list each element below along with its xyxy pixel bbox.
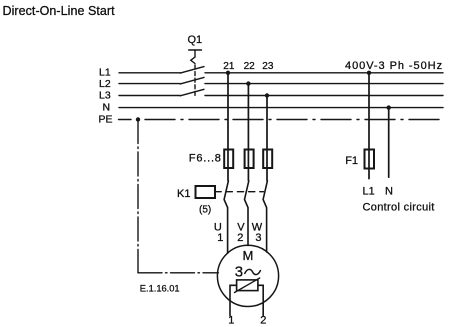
svg-text:2: 2 bbox=[237, 232, 243, 244]
bus N bbox=[103, 101, 444, 113]
svg-text:23: 23 bbox=[262, 61, 274, 72]
thermistor lead 1 bbox=[228, 285, 236, 326]
svg-text:K1: K1 bbox=[177, 188, 190, 200]
contactor K1 contact 3 bbox=[263, 181, 267, 252]
svg-text:L1: L1 bbox=[99, 67, 111, 79]
svg-text:1: 1 bbox=[228, 314, 234, 326]
node control L1 tap bbox=[367, 71, 371, 75]
svg-text:(5): (5) bbox=[199, 205, 211, 216]
node 21 bbox=[223, 61, 235, 75]
bus PE bbox=[99, 114, 444, 126]
contactor K1 contact 1 bbox=[224, 181, 228, 253]
svg-text:L1: L1 bbox=[363, 186, 375, 198]
bus L2 bbox=[99, 78, 443, 90]
svg-text:Direct-On-Line Start: Direct-On-Line Start bbox=[3, 4, 116, 18]
disconnect switch Q1 bbox=[180, 34, 204, 96]
wire phase 3 drop bbox=[266, 96, 268, 181]
svg-text:N: N bbox=[103, 101, 111, 113]
svg-text:2: 2 bbox=[260, 314, 266, 326]
PE junction node bbox=[136, 117, 140, 121]
motor thermistor bbox=[235, 278, 260, 293]
wire phase 2 drop bbox=[247, 84, 249, 181]
node 23 bbox=[262, 61, 274, 98]
svg-text:L2: L2 bbox=[99, 78, 111, 90]
svg-text:21: 21 bbox=[223, 61, 235, 72]
control circuit label bbox=[363, 201, 435, 213]
control terminal N bbox=[385, 186, 393, 198]
svg-text:F6...8: F6...8 bbox=[189, 153, 222, 165]
fuse group F6...8 bbox=[189, 150, 272, 169]
supply label 400V-3 Ph -50Hz bbox=[345, 60, 443, 72]
title text bbox=[3, 4, 116, 18]
terminal label U1 bbox=[214, 222, 224, 245]
svg-text:L3: L3 bbox=[99, 89, 111, 101]
svg-text:M: M bbox=[243, 248, 254, 263]
control terminal L1 bbox=[363, 186, 375, 198]
fuse F1 bbox=[345, 150, 374, 169]
svg-text:22: 22 bbox=[244, 61, 256, 72]
wire control L1 bbox=[368, 73, 370, 179]
bus L3 bbox=[99, 89, 443, 101]
terminal label V2 bbox=[237, 222, 245, 245]
contactor K1 contact 2 bbox=[245, 181, 249, 246]
svg-text:Control circuit: Control circuit bbox=[363, 201, 435, 213]
node control N tap bbox=[387, 105, 391, 109]
svg-text:1: 1 bbox=[217, 232, 223, 244]
terminal label W3 bbox=[252, 222, 263, 245]
motor M circle bbox=[217, 245, 278, 306]
PE wire to motor bbox=[138, 272, 218, 274]
PE wire vertical bbox=[137, 120, 139, 273]
wire phase 1 drop bbox=[227, 73, 229, 181]
svg-text:F1: F1 bbox=[345, 155, 358, 167]
svg-text:E.1.16.01: E.1.16.01 bbox=[140, 283, 180, 293]
svg-text:PE: PE bbox=[99, 114, 113, 126]
contactor K1 coil bbox=[177, 186, 264, 216]
bus L1 bbox=[99, 67, 443, 79]
svg-text:Q1: Q1 bbox=[188, 34, 203, 46]
svg-text:3: 3 bbox=[235, 263, 243, 280]
svg-text:N: N bbox=[385, 186, 393, 198]
node 22 bbox=[244, 61, 256, 86]
svg-text:3: 3 bbox=[255, 232, 261, 244]
wire control N bbox=[388, 108, 390, 178]
svg-text:400V-3 Ph -50Hz: 400V-3 Ph -50Hz bbox=[345, 60, 443, 72]
reference label E.1.16.01 bbox=[140, 283, 180, 293]
thermistor lead 2 bbox=[258, 285, 266, 326]
